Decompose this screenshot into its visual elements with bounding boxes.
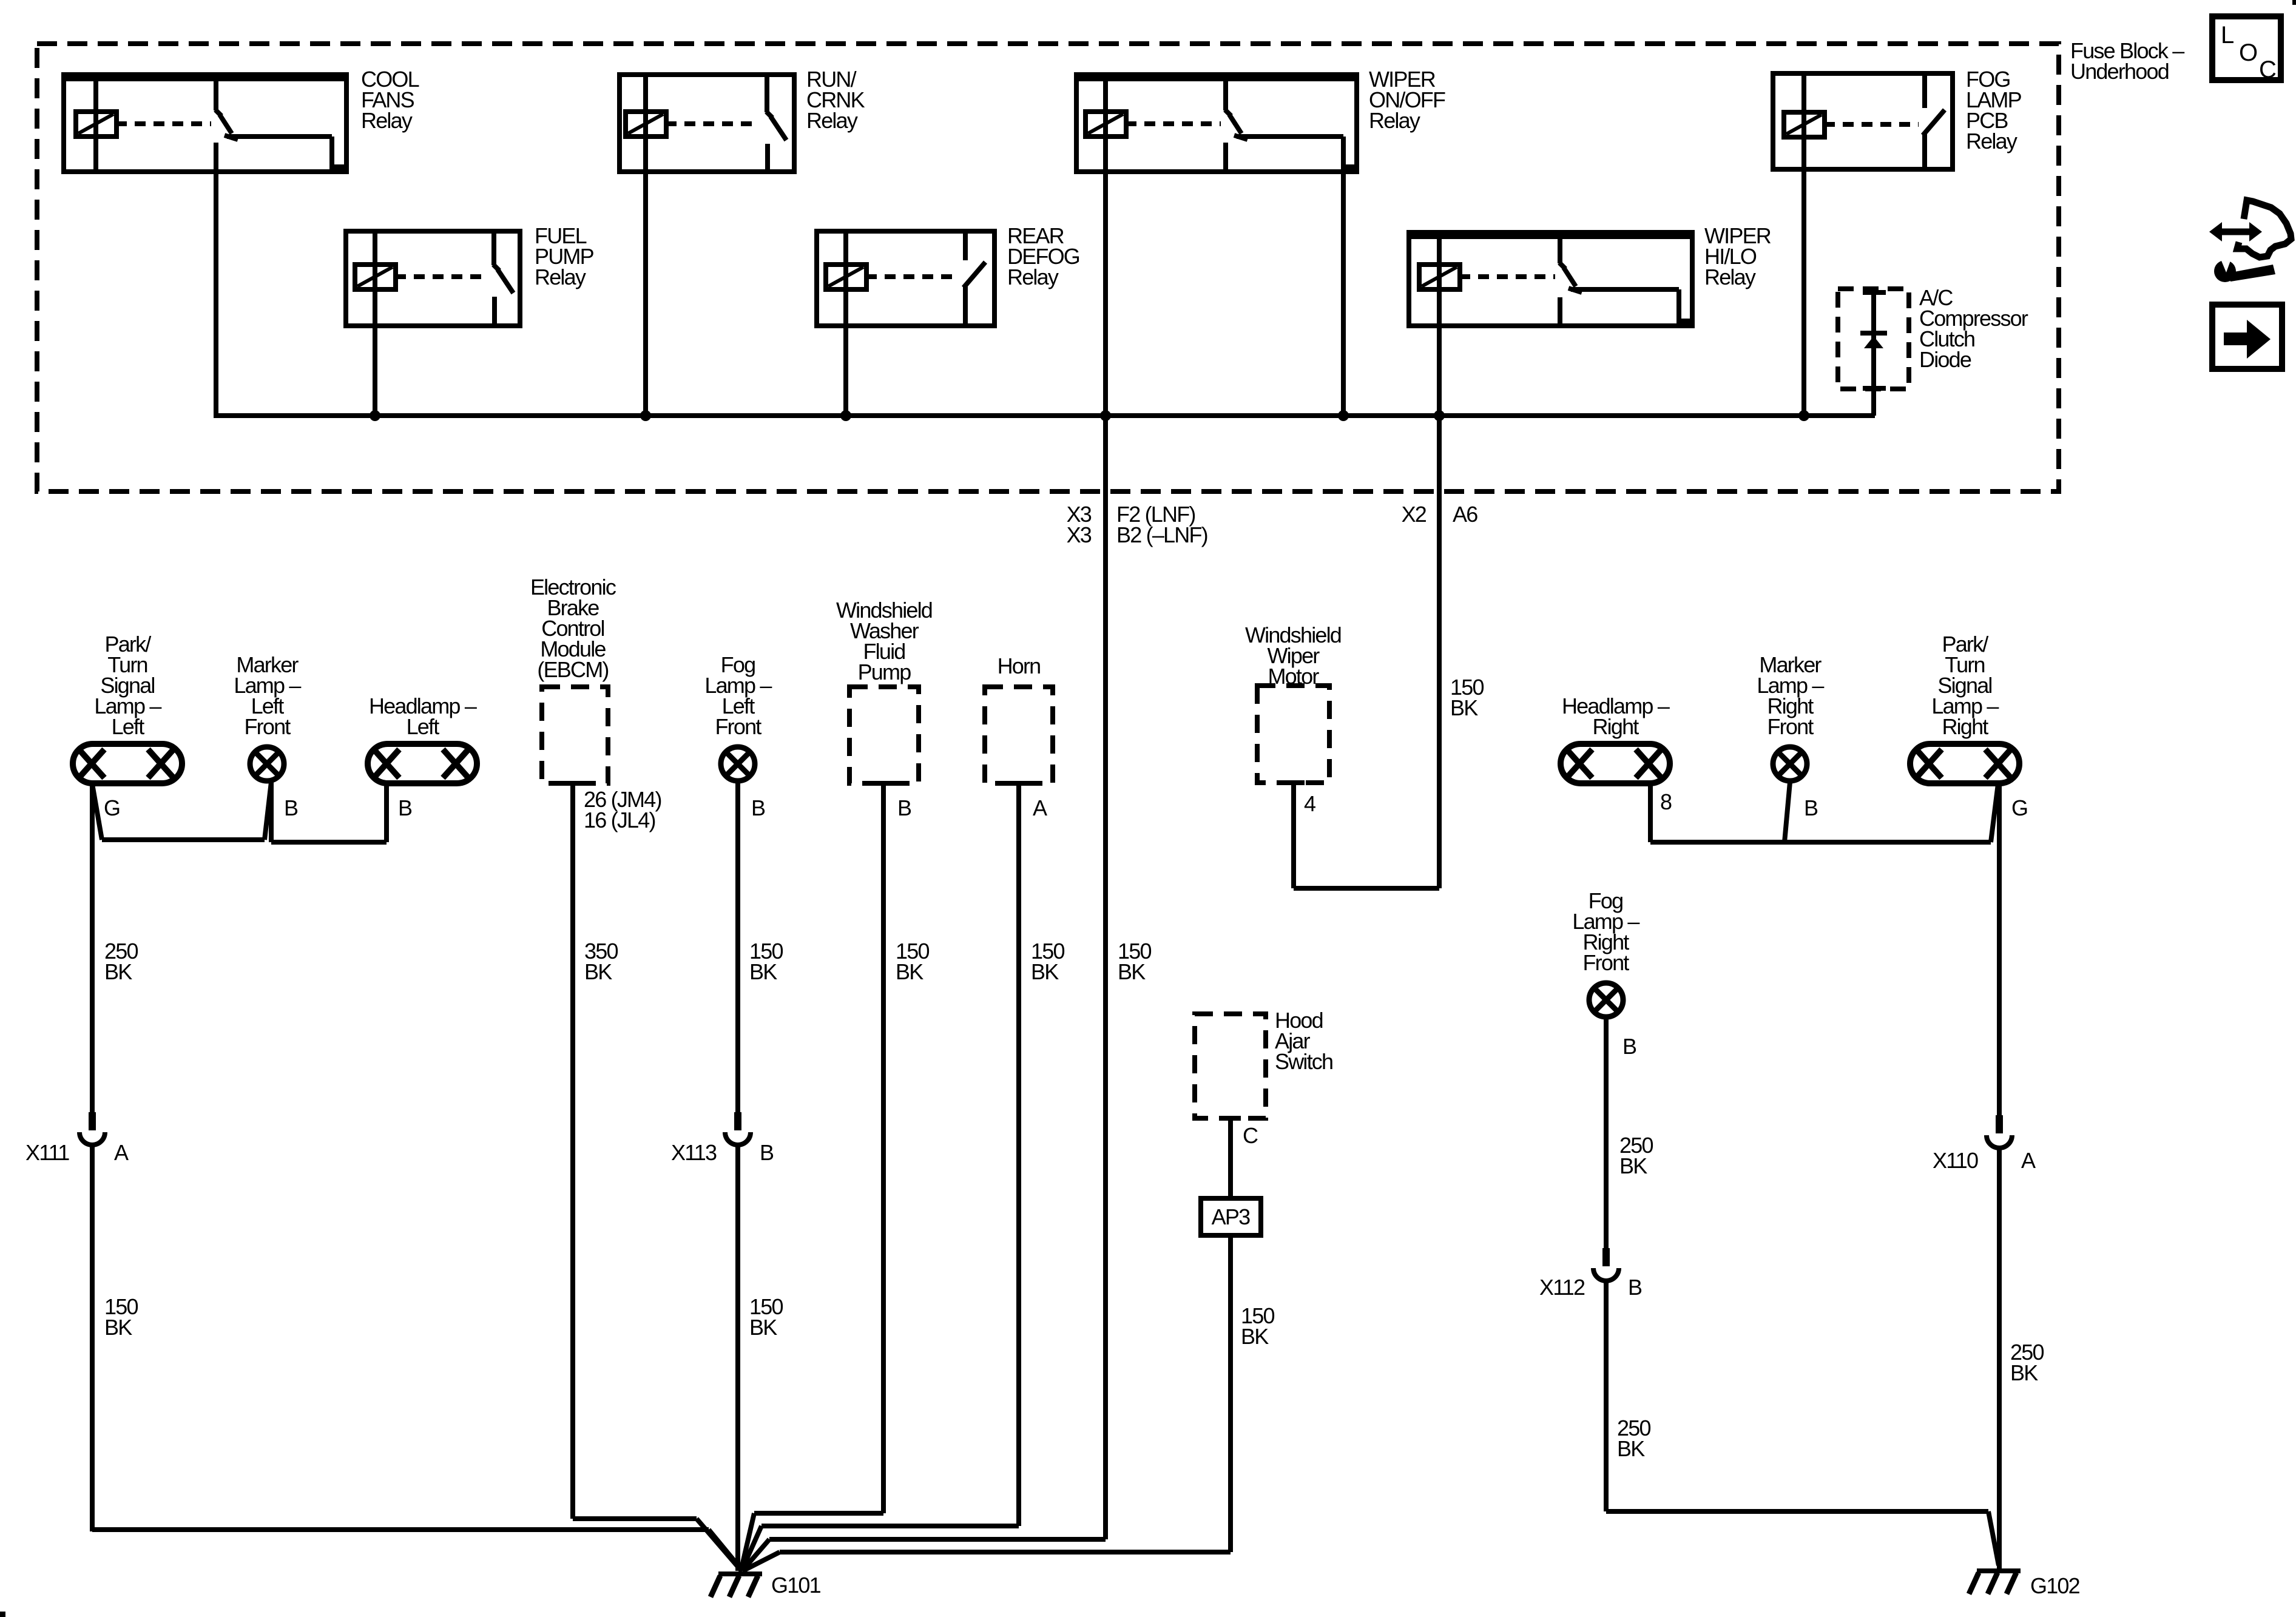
svg-text:BK: BK <box>1118 959 1146 984</box>
icon: LOC reference box <box>2212 16 2281 80</box>
junction <box>1434 410 1445 421</box>
svg-text:B: B <box>897 795 911 820</box>
wire: Park/Turn left G down <box>90 784 95 1112</box>
relay: FUEL PUMP Relay coil-to-switch dashed control line <box>395 274 487 279</box>
svg-text:X113: X113 <box>671 1140 717 1165</box>
pin tick EBCM <box>563 781 584 786</box>
wire: FUEL PUMP coil down to bus <box>373 326 377 416</box>
svg-text:A6: A6 <box>1453 502 1477 527</box>
svg-text:B2 (–LNF): B2 (–LNF) <box>1116 522 1207 547</box>
junction <box>370 410 380 421</box>
wire: Park/Turn left G pigtail to splice <box>92 784 102 840</box>
svg-text:X110: X110 <box>1933 1148 1978 1173</box>
wire: Headlamp left B vertical <box>384 784 389 842</box>
wire: wiper motor pin 4 down <box>1291 783 1296 888</box>
svg-text:B: B <box>751 795 765 820</box>
svg-text:BK: BK <box>2010 1360 2038 1385</box>
relay: WIPER HI/LO Relay switch <box>1558 237 1562 263</box>
svg-text:Right: Right <box>1592 714 1639 739</box>
svg-text:X3: X3 <box>1067 522 1092 547</box>
svg-text:Relay: Relay <box>806 108 858 133</box>
svg-text:BK: BK <box>104 1315 132 1340</box>
svg-text:BK: BK <box>1031 959 1059 984</box>
connector X113 terminal B female terminal <box>725 1132 751 1145</box>
svg-text:B: B <box>1622 1034 1636 1059</box>
svg-text:BK: BK <box>749 959 777 984</box>
wire: right 250 BK below X110 <box>1997 1149 2002 1568</box>
wire: right lamp splice line <box>1650 840 1991 845</box>
wire: fog left 150 BK lower straight into G101 <box>735 1146 740 1571</box>
wire: left lamp splice line 2 <box>271 840 387 845</box>
svg-text:G101: G101 <box>771 1573 821 1598</box>
lamp: Park/Turn Signal Lamp - Right <box>1910 744 2019 783</box>
pin tick washer pump <box>873 781 894 786</box>
wire: park/turn right G down <box>1997 784 2002 1115</box>
lamp: Headlamp - Left <box>368 744 477 783</box>
wire: horn 150 BK down <box>1016 783 1021 1526</box>
relay: FUEL PUMP Relay switch <box>491 232 496 265</box>
wire: park/turn right G pigtail slant <box>1991 784 1998 842</box>
svg-text:Relay: Relay <box>1007 265 1059 289</box>
svg-text:Right: Right <box>1942 714 1988 739</box>
wire: EBCM to G101 horizontal <box>573 1516 697 1521</box>
relay: FOG LAMP PCB Relay outline <box>1773 73 1953 169</box>
svg-text:BK: BK <box>1241 1324 1269 1349</box>
junction <box>840 410 851 421</box>
svg-text:16 (JL4): 16 (JL4) <box>584 808 655 832</box>
wire: FOG LAMP PCB coil down to bus <box>1801 169 1806 416</box>
svg-text:BK: BK <box>749 1315 777 1340</box>
relay: RUN/CRNK Relay coil <box>643 75 648 172</box>
relay: WIPER HI/LO Relay coil <box>1437 232 1442 326</box>
relay: REAR DEFOG Relay switch <box>963 232 968 260</box>
wire: EBCM 350 BK down <box>570 783 575 1519</box>
svg-text:AP3: AP3 <box>1212 1204 1250 1229</box>
relay: FUEL PUMP Relay coil <box>373 231 377 326</box>
svg-text:Relay: Relay <box>1704 265 1756 289</box>
relay: FOG LAMP PCB Relay coil <box>1801 73 1806 169</box>
connector X110 terminal A male pin <box>1996 1115 2003 1133</box>
wire: WIPER ON/OFF contact leg down to bus <box>1341 172 1346 416</box>
junction <box>640 410 651 421</box>
diode V1 cathode bar <box>1860 331 1887 336</box>
diode V1 wire <box>1871 292 1876 416</box>
svg-text:A: A <box>2021 1148 2036 1173</box>
wire: X3 wire slant into G101 <box>742 1539 769 1571</box>
wire: Marker left B pigtail slant <box>265 782 271 840</box>
wire: washer slant into G101 <box>741 1513 754 1571</box>
wire: left lamp splice line 1 <box>102 837 265 842</box>
wire: horn slant into G101 <box>741 1526 761 1571</box>
icon: service wrench with double arrow <box>2221 229 2250 235</box>
svg-text:Front: Front <box>1767 714 1814 739</box>
wire: EBCM slant into G101 <box>697 1519 741 1571</box>
diode V1 triangle <box>1864 336 1883 348</box>
svg-text:B: B <box>398 795 412 820</box>
wire: horn to G101 horizontal <box>761 1524 1019 1528</box>
wire: hood ajar to G101 horizontal <box>780 1550 1231 1555</box>
relay: RUN/CRNK Relay coil-to-switch dashed control line <box>666 121 760 126</box>
fuse block underhood dashed boundary box <box>37 44 2059 491</box>
svg-text:BK: BK <box>896 959 923 984</box>
svg-text:BK: BK <box>1617 1436 1645 1461</box>
wire: RUN/CRNK coil down to bus <box>643 172 648 416</box>
svg-text:BK: BK <box>1619 1153 1647 1178</box>
wire: washer to G101 horizontal <box>754 1511 883 1516</box>
diode V1 top pin tick <box>1863 290 1886 295</box>
junction <box>1798 410 1809 421</box>
svg-text:BK: BK <box>1450 695 1478 720</box>
relay: COOL FANS Relay coil-to-switch dashed control line <box>116 121 211 126</box>
wire: headlamp right pin 8 down <box>1648 784 1653 842</box>
pin tick wiper motor pin 4 <box>1283 780 1305 785</box>
stray mark top-right <box>2292 0 2296 5</box>
relay: WIPER ON/OFF Relay contact line <box>1237 134 1343 139</box>
svg-text:Front: Front <box>244 714 291 739</box>
stray mark bottom-left <box>0 1612 5 1617</box>
relay: RUN/CRNK Relay switch <box>765 76 769 112</box>
svg-text:C: C <box>1243 1123 1258 1148</box>
component: Windshield Wiper Motor dashed box <box>1257 686 1329 783</box>
svg-text:A: A <box>114 1140 129 1165</box>
ground G102 symbol <box>1977 1568 2021 1573</box>
svg-text:B: B <box>1804 795 1818 820</box>
connector X113 terminal B male pin <box>734 1112 741 1130</box>
svg-text:G: G <box>2011 795 2027 820</box>
wire: fog right to G102 horizontal <box>1606 1509 1988 1514</box>
connector X112 terminal B female terminal <box>1593 1268 1619 1281</box>
relay: WIPER ON/OFF Relay outline <box>1076 75 1357 172</box>
svg-text:Relay: Relay <box>535 265 586 289</box>
wire: hood ajar slant into G101 <box>743 1552 780 1571</box>
svg-text:Motor: Motor <box>1268 664 1319 689</box>
wire: fog right 250 BK upper <box>1604 1018 1609 1248</box>
wire: fog right 250 BK lower <box>1604 1281 1609 1511</box>
wire: X3 F2 150 BK wire down (from WIPER ON/OFF coil) <box>1103 416 1108 1539</box>
wire: WIPER ON/OFF coil down to bus (continues as X3 F2 wire) <box>1103 172 1108 416</box>
wire: X3 wire to G101 horizontal <box>769 1537 1106 1542</box>
svg-text:A: A <box>1033 795 1047 820</box>
relay: REAR DEFOG Relay outline <box>817 231 994 326</box>
relay: WIPER ON/OFF Relay coil-to-switch dashed control line <box>1126 121 1221 126</box>
relay: FUEL PUMP Relay outline <box>346 231 520 326</box>
relay: RUN/CRNK Relay outline <box>620 75 794 172</box>
wire: fog left 150 BK upper <box>735 782 740 1112</box>
relay: WIPER ON/OFF Relay coil <box>1103 75 1108 172</box>
wire: Marker left B vertical <box>269 782 274 842</box>
svg-text:Horn: Horn <box>998 653 1041 678</box>
pin tick horn <box>1008 781 1029 786</box>
wire: WIPER ON/OFF open pin below pivot <box>1223 143 1228 172</box>
wire: left wire slant into G101 <box>709 1530 743 1571</box>
component: Hood Ajar Switch dashed box <box>1195 1014 1266 1118</box>
wire: X2 A6 150 BK wire down from bus <box>1437 416 1442 888</box>
svg-text:L: L <box>2221 22 2234 49</box>
svg-text:X111: X111 <box>25 1140 69 1165</box>
diode V1 bottom pin tick <box>1863 386 1886 391</box>
relay: WIPER HI/LO Relay contact line <box>1571 287 1679 292</box>
svg-text:(EBCM): (EBCM) <box>537 657 608 682</box>
lamp: Marker Lamp - Left Front <box>250 747 284 781</box>
wire: REAR DEFOG coil down to bus <box>843 326 848 416</box>
relay: REAR DEFOG Relay coil <box>843 231 848 326</box>
svg-text:G: G <box>104 795 120 820</box>
wire: WIPER HI/LO open pin below pivot <box>1558 297 1562 326</box>
relay: FOG LAMP PCB Relay coil-to-switch dashed control line <box>1824 122 1919 127</box>
junction <box>1338 410 1349 421</box>
svg-text:X2: X2 <box>1402 502 1427 527</box>
relay: WIPER HI/LO Relay outline <box>1409 232 1692 326</box>
connector X111 terminal A female terminal <box>79 1132 105 1145</box>
lamp: Park/Turn Signal Lamp - Left <box>73 744 182 783</box>
svg-text:Left: Left <box>407 714 440 739</box>
lamp: Headlamp - Right <box>1561 744 1670 783</box>
svg-text:Diode: Diode <box>1919 347 1971 372</box>
component: Horn dashed box <box>985 687 1053 783</box>
wire: WIPER HI/LO coil down to bus (continues as X2 A6 wire) <box>1437 326 1442 416</box>
wire: ground bus rail inside fuse block <box>214 413 1875 418</box>
junction <box>1100 410 1111 421</box>
svg-text:Underhood: Underhood <box>2070 59 2169 84</box>
relay: COOL FANS Relay outline <box>64 75 346 172</box>
svg-text:G102: G102 <box>2030 1573 2080 1598</box>
svg-text:X112: X112 <box>1539 1275 1585 1300</box>
relay: COOL FANS Relay contact line <box>227 134 332 139</box>
lamp: Marker Lamp - Right Front <box>1773 747 1807 781</box>
svg-text:B: B <box>1628 1275 1642 1300</box>
svg-text:Switch: Switch <box>1275 1049 1332 1074</box>
icon: arrow continuation box <box>2212 305 2282 369</box>
wire: left 150 BK below X111 <box>90 1146 95 1531</box>
svg-text:Left: Left <box>112 714 145 739</box>
wire: COOL FANS relay switch output down to ground bus <box>214 143 218 416</box>
relay: REAR DEFOG Relay coil-to-switch dashed control line <box>866 274 959 279</box>
splice AP3 box <box>1201 1198 1261 1235</box>
connector X110 terminal A female terminal <box>1987 1135 2012 1148</box>
lamp: Fog Lamp - Right Front <box>1589 983 1623 1017</box>
lamp: Fog Lamp - Left Front <box>721 747 755 781</box>
svg-text:B: B <box>284 795 298 820</box>
relay: WIPER HI/LO Relay coil-to-switch dashed control line <box>1459 274 1555 279</box>
connector X112 terminal B male pin <box>1602 1248 1610 1266</box>
wire: fog right slant into G102 <box>1988 1511 1999 1565</box>
wire: hood ajar switch to AP3 <box>1228 1118 1233 1198</box>
relay: COOL FANS Relay coil <box>93 75 98 172</box>
component: A/C Compressor Clutch Diode dashed box <box>1838 289 1909 389</box>
svg-text:Front: Front <box>1582 950 1629 975</box>
pin tick hood ajar switch <box>1220 1116 1241 1121</box>
svg-text:Pump: Pump <box>858 660 911 684</box>
connector X111 terminal A male pin <box>89 1112 96 1130</box>
svg-text:C: C <box>2259 56 2277 83</box>
svg-text:BK: BK <box>104 959 132 984</box>
wire: left wire to G101 horizontal <box>92 1527 709 1532</box>
svg-text:Relay: Relay <box>1966 129 2017 154</box>
component: Windshield Washer Fluid Pump dashed box <box>849 687 919 783</box>
svg-text:B: B <box>760 1140 774 1165</box>
svg-text:4: 4 <box>1304 791 1315 816</box>
wire: AP3 150 BK down <box>1228 1235 1233 1552</box>
wire: wiper motor to X2 wire horizontal <box>1294 886 1439 891</box>
module: Electronic Brake Control Module (EBCM) dashed box <box>542 687 608 783</box>
wire: washer pump 150 BK down <box>881 783 886 1513</box>
wire: marker right B slant <box>1784 782 1790 842</box>
relay: WIPER ON/OFF Relay switch <box>1223 79 1228 110</box>
svg-text:Relay: Relay <box>1369 108 1420 133</box>
svg-text:O: O <box>2239 39 2258 66</box>
svg-text:8: 8 <box>1660 789 1672 814</box>
svg-text:Relay: Relay <box>361 108 413 133</box>
relay: COOL FANS Relay switch <box>214 79 218 110</box>
ground G101 symbol <box>718 1571 762 1576</box>
svg-text:BK: BK <box>584 959 612 984</box>
relay: FOG LAMP PCB Relay switch <box>1922 75 1927 108</box>
svg-text:Front: Front <box>715 714 761 739</box>
